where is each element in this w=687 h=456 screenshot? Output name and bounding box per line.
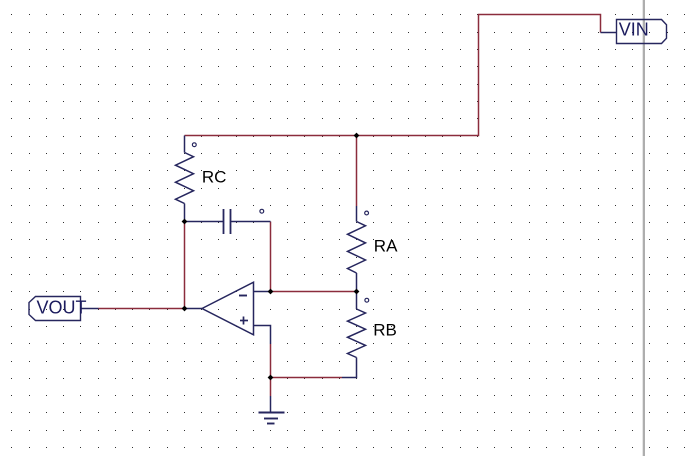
svg-text:VIN: VIN [619,19,649,39]
svg-text:VOUT: VOUT [37,297,87,317]
svg-text:RC: RC [202,167,227,186]
svg-text:RA: RA [374,236,398,255]
svg-text:RB: RB [373,320,397,339]
